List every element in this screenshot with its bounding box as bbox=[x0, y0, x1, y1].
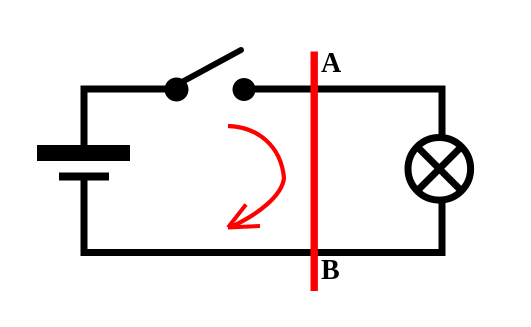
battery B1 long plate bbox=[37, 145, 130, 161]
lamp L1 circle bbox=[408, 138, 471, 201]
node A label bbox=[321, 50, 341, 78]
red arrow head barb upper bbox=[228, 205, 246, 228]
red section line A-B bbox=[311, 52, 318, 292]
red current-direction arrow: curved shaft bbox=[228, 126, 284, 226]
switch S1 right contact bbox=[233, 78, 256, 101]
wire: from switch right contact to top-right corner and down to lamp bbox=[244, 89, 442, 137]
switch S1 left contact bbox=[165, 78, 189, 102]
switch S1 lever (open) bbox=[182, 50, 241, 82]
node B label bbox=[321, 257, 340, 285]
wire: left branch (top wire from corner to switch, down to battery) bbox=[84, 89, 177, 146]
lamp L1 cross bbox=[417, 147, 461, 191]
battery B1 short plate bbox=[59, 173, 109, 181]
red arrow head barb lower bbox=[228, 226, 260, 228]
wire: battery negative down, bottom wire, up right side to lamp bbox=[84, 180, 442, 253]
